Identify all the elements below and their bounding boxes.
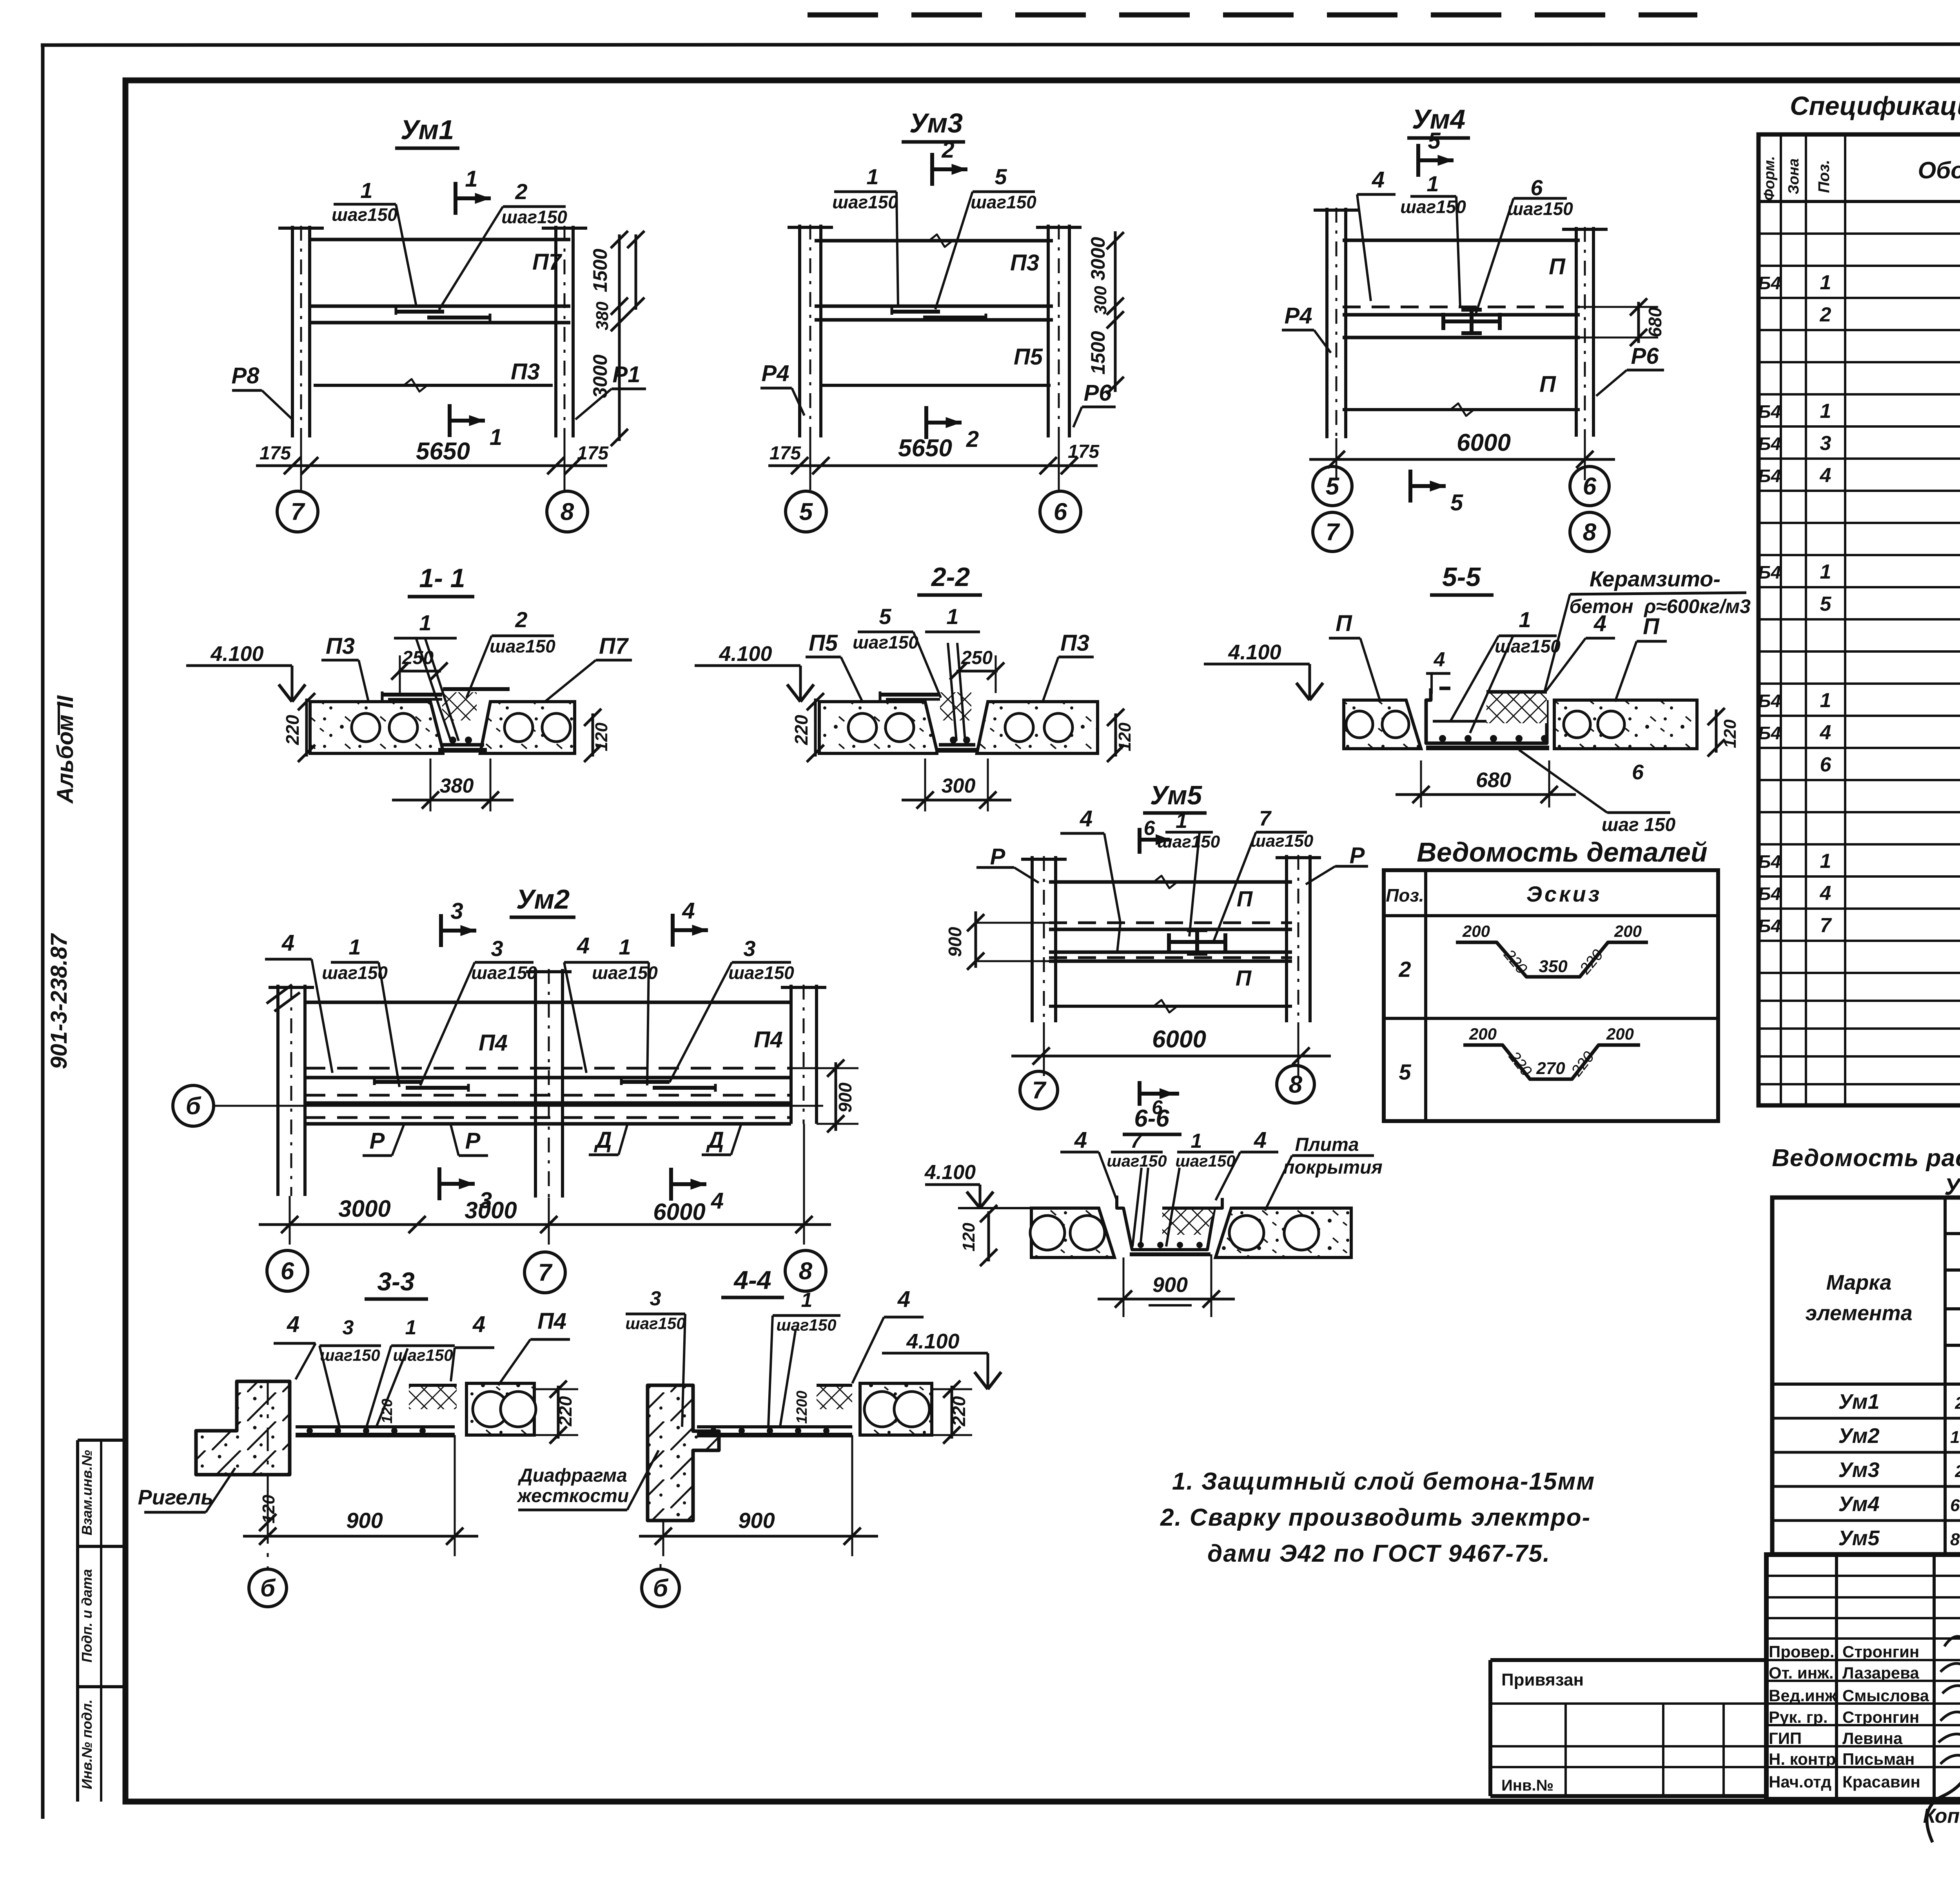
plan Um3 joint plate detail [892,310,940,314]
section 6-6 rebar dots [1138,1242,1144,1248]
svg-text:680: 680 [1476,768,1511,792]
section 1-1 dim 120 right [592,713,594,757]
svg-text:Рук. гр.: Рук. гр. [1769,1708,1828,1726]
svg-text:Б4: Б4 [1758,851,1781,872]
svg-text:6000: 6000 [1457,429,1511,456]
svg-text:Взам.инв.№: Взам.инв.№ [79,1450,95,1535]
spec table rows [1759,232,1960,235]
svg-text:Лазарева: Лазарева [1842,1664,1919,1682]
svg-text:П5: П5 [809,630,838,656]
section 3-3 dim 120 bottom left [267,1475,269,1529]
svg-text:900: 900 [945,927,965,957]
section 1-1 left slab [310,702,443,753]
svg-text:120: 120 [959,1223,978,1252]
svg-text:120: 120 [1115,722,1134,751]
svg-text:270: 270 [1536,1059,1565,1078]
svg-text:Ум2: Ум2 [516,884,570,915]
plan Um4 dim 680 right [1637,302,1640,343]
svg-text:П5: П5 [1014,344,1043,370]
steel table frame [1772,1198,1960,1554]
svg-text:6: 6 [1144,817,1156,840]
svg-text:6: 6 [1530,175,1543,200]
svg-text:8: 8 [1583,519,1597,546]
svg-text:шаг150: шаг150 [501,207,567,227]
svg-text:5650: 5650 [898,435,952,462]
section 2-2 dim 250 [956,670,998,673]
svg-text:4: 4 [281,930,294,956]
plan Um2 right wall [789,985,793,1124]
plan Um4 axis circle 6 [1570,466,1609,506]
svg-text:3: 3 [743,936,755,961]
svg-text:3: 3 [450,898,463,924]
svg-text:5: 5 [879,604,891,629]
svg-text:900: 900 [346,1508,383,1533]
svg-text:шаг150: шаг150 [728,962,794,983]
svg-text:1: 1 [1820,400,1831,423]
svg-text:1: 1 [1820,689,1831,712]
svg-text:5: 5 [1326,473,1340,500]
section 4-4 axis circle b [642,1569,679,1607]
svg-text:П: П [1539,372,1556,397]
svg-text:5: 5 [1428,128,1441,154]
svg-text:7: 7 [291,499,305,526]
svg-text:Б4: Б4 [1758,562,1781,582]
svg-text:шаг150: шаг150 [853,632,918,652]
vedomost detaley sketch pos 2 [1456,942,1648,977]
svg-text:120: 120 [592,722,611,751]
svg-text:П: П [1237,886,1253,911]
svg-text:Эскиз: Эскиз [1526,882,1602,906]
svg-text:7: 7 [1326,519,1340,546]
section 6-6 trough [1117,1196,1222,1250]
section 6-6 dim 900 [1123,1257,1125,1317]
section 1-1 bent plate left [382,693,476,697]
plan Um4 right wall [1575,227,1578,437]
svg-text:П: П [1549,254,1566,279]
section 3-3 cast strip [296,1425,455,1428]
svg-text:шаг150: шаг150 [322,962,388,983]
svg-text:4.100: 4.100 [924,1161,976,1184]
svg-text:шаг150: шаг150 [1107,1152,1167,1170]
svg-text:63.25: 63.25 [1950,1496,1960,1515]
svg-text:Б4: Б4 [1758,273,1781,293]
svg-text:шаг150: шаг150 [1507,198,1573,219]
section 3-3 right slab P4 [466,1383,534,1435]
plan Um2 slab top line [305,1001,791,1004]
svg-text:2: 2 [515,607,527,632]
svg-text:шаг150: шаг150 [1175,1152,1235,1170]
svg-text:175: 175 [577,443,609,464]
plan Um5 bottom dim 6000 [1011,1055,1331,1058]
plan Um3 right wall [1047,225,1050,437]
section 4-4 dim 900 bottom [639,1535,878,1538]
svg-text:шаг150: шаг150 [1157,832,1220,851]
section 6-6 right slab [1216,1208,1351,1257]
section 4-4 diaphragm block hatched [648,1385,719,1521]
svg-text:120: 120 [1720,719,1740,748]
section 6-6 keramzit fill [1162,1208,1214,1235]
svg-text:4: 4 [897,1287,910,1312]
svg-text:1: 1 [348,934,361,959]
svg-text:Б4: Б4 [1758,434,1781,454]
plan Um5 axis circle 7 [1020,1071,1058,1109]
svg-text:Стронгин: Стронгин [1842,1642,1919,1661]
svg-text:6: 6 [1054,499,1067,526]
svg-text:200: 200 [1462,922,1490,940]
plan Um1 dim chain right [618,234,621,441]
svg-text:200: 200 [1614,922,1642,940]
svg-text:4: 4 [1820,464,1831,487]
svg-text:5: 5 [1450,490,1463,515]
section 4-4 dim 220 right [951,1386,953,1439]
svg-text:П7: П7 [532,249,563,275]
svg-text:П: П [1236,965,1252,990]
svg-text:Д: Д [706,1127,724,1153]
title block verticals [1835,1555,1838,1799]
plan Um1 right wall P1 [554,226,557,437]
svg-text:1. Защитный слой бетона-15мм: 1. Защитный слой бетона-15мм [1172,1468,1595,1495]
privyazan grid [1490,1702,1766,1705]
svg-text:Ведомость расхода стали на мо: Ведомость расхода стали на монолитные уч… [1772,1145,1960,1172]
svg-text:Р4: Р4 [762,361,789,386]
svg-text:шаг150: шаг150 [1250,831,1314,851]
section 1-1 level mark 4.100 [186,664,292,667]
svg-text:4: 4 [1074,1127,1087,1153]
svg-text:б: б [260,1575,276,1602]
svg-text:4: 4 [1820,721,1831,744]
svg-text:1: 1 [1519,607,1531,632]
svg-text:1: 1 [1426,171,1439,196]
svg-text:П7: П7 [599,633,629,659]
section 1-1 dim 250 [398,670,441,673]
svg-text:Зона: Зона [1786,158,1802,194]
svg-text:Д: Д [593,1127,612,1153]
svg-text:Б4: Б4 [1758,884,1781,904]
section 2-2 dim 120 right [1114,713,1117,757]
svg-text:220: 220 [791,715,811,745]
plan Um5 section marker 6 top [1138,828,1142,854]
svg-text:ГИП: ГИП [1769,1729,1802,1747]
svg-text:300: 300 [1091,286,1110,315]
plan Um2 joint plate detail right [621,1080,670,1084]
svg-text:Смыслова: Смыслова [1842,1686,1929,1705]
svg-text:3: 3 [479,1188,492,1213]
svg-text:1: 1 [1820,850,1831,873]
svg-text:8: 8 [799,1258,813,1285]
section 2-2 keramzit patch [940,692,971,720]
svg-text:П4: П4 [479,1030,508,1056]
svg-text:175: 175 [769,443,801,464]
plan Um4 axis circle 7 [1313,512,1352,552]
plan Um5 section marker 6 bottom [1138,1081,1142,1106]
svg-text:1: 1 [1820,561,1831,583]
svg-text:шаг150: шаг150 [332,204,397,225]
vedomost detaley table frame [1384,870,1718,1121]
plan Um2 axis circle 7 [524,1252,565,1293]
svg-text:380: 380 [593,301,612,330]
svg-text:П3: П3 [511,359,540,385]
svg-text:6: 6 [1632,760,1644,784]
svg-text:380: 380 [440,775,474,797]
svg-text:шаг150: шаг150 [776,1316,836,1334]
svg-text:175: 175 [1068,441,1100,462]
svg-text:680: 680 [1645,307,1665,337]
svg-text:Копировал:: Копировал: [1923,1805,1960,1827]
svg-text:1500: 1500 [589,249,611,292]
plan Um3 dim chain right [1114,231,1117,392]
svg-text:5: 5 [799,499,813,526]
plan Um3 left wall [798,225,801,437]
svg-text:7: 7 [1131,1130,1143,1152]
svg-text:Б4: Б4 [1758,723,1781,743]
svg-text:1: 1 [619,934,631,959]
section 5-5 dim 680 [1420,760,1422,807]
plan Um1 axis circle 7 [277,491,318,532]
sheet outer border left [41,45,45,1819]
section 2-2 rebar in trough [948,643,956,741]
svg-text:1- 1: 1- 1 [419,563,465,593]
svg-text:5650: 5650 [416,438,470,465]
svg-text:Ведомость деталей: Ведомость деталей [1417,837,1708,867]
section 5-5 channel trough [1426,688,1547,743]
svg-text:1: 1 [801,1289,813,1312]
svg-text:6: 6 [281,1258,294,1285]
plan Um2 axis B line [214,1105,823,1107]
plan Um2 axis circle 8 [785,1250,826,1291]
svg-text:7: 7 [1259,807,1272,830]
svg-text:Р4: Р4 [1285,303,1312,328]
svg-text:П4: П4 [537,1308,566,1334]
svg-text:5: 5 [1399,1060,1411,1084]
plan Um3 axis circle 6 [1040,491,1081,532]
svg-text:900: 900 [738,1508,775,1533]
svg-text:Диафрагма: Диафрагма [517,1465,627,1486]
section 3-3 axis circle b [249,1569,287,1607]
svg-text:шаг150: шаг150 [971,192,1036,212]
svg-text:2-2: 2-2 [931,562,970,592]
svg-text:2: 2 [1820,303,1831,326]
svg-text:25.3: 25.3 [1955,1462,1960,1481]
svg-text:Р8: Р8 [232,363,260,388]
svg-text:б: б [653,1575,669,1602]
section 1-1 keramzit patch [442,692,477,720]
svg-text:П3: П3 [326,633,355,659]
svg-text:7: 7 [1032,1077,1047,1104]
svg-text:3: 3 [343,1316,354,1339]
section 3-3 axis line [267,1381,269,1568]
plan Um2 section marker 3 bottom [437,1167,441,1200]
section 3-3 dim 220 right [557,1386,560,1439]
plan Um4 section marker 5 top [1416,144,1420,177]
section 6-6 dim 120 left [987,1211,990,1261]
svg-text:3: 3 [1820,432,1831,455]
svg-text:4: 4 [711,1188,724,1214]
svg-text:3: 3 [650,1287,661,1310]
section 1-1 dim 220 left [305,699,308,757]
svg-text:900: 900 [1152,1273,1188,1297]
svg-text:300: 300 [942,775,976,797]
svg-text:Б4: Б4 [1758,466,1781,486]
title block row lines left part [1766,1575,1960,1577]
svg-text:4: 4 [1434,648,1445,671]
svg-text:Провер.: Провер. [1769,1642,1834,1661]
vedomost detaley sketch pos 5 [1463,1045,1640,1079]
svg-text:8: 8 [1289,1071,1303,1098]
stamp column divider [76,1440,79,1802]
section 3-3 dim 900 bottom [243,1535,478,1538]
vedomost detaley header row [1384,914,1718,917]
svg-text:4: 4 [577,933,590,958]
plan Um2 band lines [305,1067,791,1070]
svg-text:ρ≈600кг/м3: ρ≈600кг/м3 [1643,595,1751,617]
plan Um4 bottom dim 6000 [1309,458,1615,461]
svg-text:Р: Р [370,1128,385,1154]
svg-text:900: 900 [835,1082,855,1112]
section 2-2 trough floor [939,743,975,747]
svg-text:От. инж.: От. инж. [1769,1664,1834,1682]
svg-text:Ум5: Ум5 [1150,780,1203,810]
section 4-4 cast strip [697,1425,852,1428]
svg-text:88.55: 88.55 [1950,1530,1960,1549]
svg-text:7: 7 [1820,914,1832,937]
svg-text:Привязан: Привязан [1501,1670,1584,1689]
svg-text:1: 1 [1820,271,1831,294]
section 2-2 level mark 4.100 [695,664,800,667]
svg-text:Марка: Марка [1826,1271,1892,1294]
section 2-2 right slab [977,702,1098,753]
svg-text:1200: 1200 [794,1391,810,1424]
svg-text:Ум3: Ум3 [909,108,963,138]
section 2-2 dim 220 left [814,699,817,757]
svg-text:П: П [1336,611,1352,636]
svg-text:шаг150: шаг150 [832,192,898,212]
svg-text:шаг 150: шаг 150 [1602,815,1676,835]
svg-text:6000: 6000 [1152,1026,1206,1053]
svg-text:4.100: 4.100 [719,642,772,666]
svg-text:6000: 6000 [653,1199,705,1225]
section 3-3 rigel block hatched [196,1381,290,1475]
steel table data rows [1772,1417,1960,1420]
plan Um4 section marker 5 bottom [1408,470,1412,503]
svg-text:6: 6 [1583,473,1597,500]
svg-text:Стронгин: Стронгин [1842,1708,1919,1726]
svg-text:Письман: Письман [1842,1750,1915,1768]
spec table frame [1759,134,1960,1105]
plan Um2 section marker 3 top [439,914,443,947]
svg-text:5: 5 [1820,593,1832,615]
svg-text:Б4: Б4 [1758,401,1781,422]
svg-text:Б4: Б4 [1758,916,1781,936]
svg-text:4: 4 [287,1312,299,1337]
svg-text:Р: Р [990,844,1005,869]
svg-text:Плита: Плита [1295,1134,1359,1155]
svg-text:Б4: Б4 [1758,691,1781,711]
plan Um5 left wall P [1031,856,1034,1022]
svg-text:Ум1: Ум1 [401,114,454,145]
section 1-1 right slab [480,702,575,753]
svg-text:1: 1 [1191,1130,1202,1152]
svg-text:220: 220 [282,715,303,745]
svg-text:1: 1 [360,178,372,203]
svg-text:б: б [186,1093,201,1120]
svg-text:4: 4 [472,1312,485,1337]
privyazan box [1490,1658,1766,1662]
svg-text:220: 220 [555,1396,575,1426]
svg-text:4: 4 [682,898,695,924]
section 2-2 bent plate left [880,693,970,697]
svg-text:Ум4: Ум4 [1838,1492,1879,1516]
svg-text:25.3: 25.3 [1955,1394,1960,1413]
svg-text:Р: Р [465,1128,481,1154]
svg-text:Инв.№ подл.: Инв.№ подл. [79,1699,95,1789]
section 2-2 dim 300 bottom [924,758,926,811]
svg-text:Поз.: Поз. [1386,885,1424,905]
plan Um4 channel symbol [1443,319,1500,323]
svg-text:4.100: 4.100 [906,1330,959,1353]
svg-text:шаг150: шаг150 [471,962,537,983]
plan Um5 channel symbol [1169,940,1225,944]
plan Um5 right wall P [1285,855,1288,1022]
svg-text:4: 4 [1820,882,1831,905]
plan Um1 joint plate detail [396,310,444,314]
svg-text:Ум1: Ум1 [1838,1390,1879,1414]
scanner smear top edge [808,13,1697,18]
svg-text:4.100: 4.100 [210,642,263,666]
plan Um2 axis circle 6 [267,1250,308,1291]
svg-text:Инв.№: Инв.№ [1501,1777,1553,1794]
plan Um3 section marker 2 top [930,153,934,186]
svg-text:Форм.: Форм. [1761,156,1778,201]
svg-text:4: 4 [1372,167,1385,192]
svg-text:4: 4 [1080,806,1093,831]
svg-text:6: 6 [1820,753,1832,776]
svg-text:8: 8 [561,499,574,526]
plan Um5 slab outline [1049,880,1292,884]
svg-text:175: 175 [260,443,291,464]
svg-text:2: 2 [941,137,954,163]
svg-text:250: 250 [402,648,434,668]
section 5-5 rebar dots [1439,735,1446,742]
section 1-1 trough floor [441,743,484,747]
svg-text:1: 1 [866,164,878,189]
plan Um1 axis circle 8 [547,491,588,532]
svg-text:Н. контр: Н. контр [1769,1750,1836,1768]
svg-text:шаг150: шаг150 [320,1346,380,1365]
stamp cell Подп. и дата [78,1685,125,1688]
plan Um5 dim 900 left [975,911,977,968]
svg-text:Подп. и дата: Подп. и дата [79,1569,95,1662]
plan Um3 bottom dim 175-5650-175 [768,465,1098,467]
section 5-5 dim 120 right [1715,709,1718,753]
svg-text:1500: 1500 [1087,331,1109,374]
vedomost detaley row divider [1384,1017,1718,1020]
plan Um1 left wall P8 [291,226,294,437]
section 5-5 left slab [1344,700,1421,749]
section 2-2 left slab [819,702,937,753]
sheet outer border top [41,44,1960,45]
svg-text:3: 3 [491,936,503,961]
plan Um4 left wall [1325,208,1328,438]
svg-text:шаг150: шаг150 [490,636,555,656]
section 1-1 bent plate right [443,687,510,691]
svg-text:Красавин: Красавин [1842,1773,1920,1791]
spec table header [1780,134,1782,1105]
svg-text:дами Э42 по ГОСТ 9467-75.: дами Э42 по ГОСТ 9467-75. [1207,1540,1550,1567]
svg-text:3000: 3000 [338,1196,390,1222]
plan Um2 middle wall axis7 [534,969,537,1198]
svg-text:Ум2: Ум2 [1838,1424,1879,1448]
section 6-6 left slab [1031,1208,1114,1257]
